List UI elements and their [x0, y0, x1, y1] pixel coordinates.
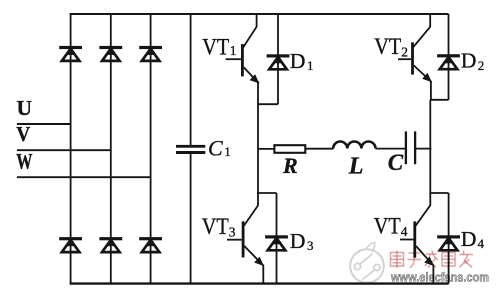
svg-text:www.elecfans.com: www.elecfans.com — [390, 270, 489, 285]
svg-text:2: 2 — [401, 44, 408, 59]
thyristor VS2 — [99, 46, 122, 61]
wire: phase U input — [17, 123, 71, 125]
svg-text:4: 4 — [401, 224, 408, 239]
svg-text:V: V — [16, 122, 30, 146]
wire: D3 branch — [276, 193, 278, 284]
svg-text:R: R — [282, 153, 298, 178]
svg-text:3: 3 — [307, 238, 314, 253]
inductor L — [333, 141, 375, 148]
svg-text:4: 4 — [478, 236, 485, 251]
thyristor VS4 — [59, 237, 82, 252]
wire: D1 branch — [277, 14, 279, 104]
diode D3 — [265, 235, 288, 250]
svg-text:VT: VT — [202, 214, 229, 239]
svg-text:D: D — [290, 229, 306, 253]
wire: R to L — [305, 148, 333, 150]
wire: bottom DC rail — [70, 282, 449, 284]
svg-text:1: 1 — [224, 144, 231, 159]
svg-text:C: C — [208, 136, 223, 161]
resistor R — [274, 145, 305, 153]
wire: VT3 emitter to rail — [262, 265, 264, 284]
svg-text:VT: VT — [374, 34, 401, 59]
transistor VT3 — [227, 193, 264, 266]
transistor VT4 — [400, 193, 434, 266]
wire: rectifier leg 1 — [70, 14, 72, 284]
svg-text:W: W — [16, 149, 33, 174]
svg-text:1: 1 — [230, 43, 237, 58]
wire: C1 top lead — [190, 14, 192, 145]
wire: D4 branch — [448, 193, 450, 284]
thyristor VS5 — [99, 237, 122, 252]
wire: rectifier leg 3 — [150, 14, 152, 284]
capacitor C1 — [176, 145, 205, 154]
svg-text:2: 2 — [478, 58, 485, 73]
svg-text:U: U — [17, 96, 33, 120]
thyristor VS1 — [59, 46, 82, 61]
transistor VT2 — [398, 14, 432, 82]
svg-text:1: 1 — [307, 58, 314, 73]
wire: jog joining D4 — [430, 192, 449, 194]
svg-text:D: D — [461, 49, 477, 73]
wire: rectifier leg 2 — [110, 14, 112, 284]
capacitor C (load) — [406, 131, 415, 164]
watermark red text 电子发烧友 — [391, 251, 474, 269]
wire: VT1 emitter down — [257, 83, 259, 105]
wire: load tap left — [258, 148, 274, 150]
diode D4 — [437, 235, 460, 250]
wire: C to right leg — [415, 148, 431, 150]
thyristor VS6 — [139, 237, 162, 252]
wire: jog joining D1 — [257, 103, 278, 105]
wire: left leg mid vertical — [257, 104, 259, 194]
wire: D2 branch — [448, 14, 450, 100]
wire: VT2 emitter down — [430, 81, 432, 100]
svg-text:VT: VT — [374, 213, 401, 238]
wire: VT4 emitter to rail — [432, 265, 434, 284]
diode D2 — [437, 54, 460, 69]
svg-text:L: L — [348, 154, 364, 180]
wire: right leg mid vertical — [429, 100, 431, 194]
svg-text:D: D — [461, 227, 477, 251]
svg-text:D: D — [290, 49, 306, 73]
wire: C1 bottom lead — [190, 154, 192, 284]
wire: jog joining D3 — [257, 192, 276, 194]
wire: top DC rail — [70, 13, 449, 15]
wire: phase W input — [17, 176, 151, 178]
wire: phase V input — [17, 149, 111, 151]
watermark logo circle — [350, 243, 384, 283]
thyristor VS3 — [139, 46, 162, 61]
svg-text:3: 3 — [229, 224, 236, 239]
wire: L to C — [376, 148, 406, 150]
diode D1 — [267, 54, 290, 69]
svg-text:VT: VT — [202, 34, 229, 59]
svg-text:C: C — [388, 150, 404, 175]
transistor VT1 — [226, 14, 260, 84]
wire: jog joining D2 — [430, 99, 449, 101]
